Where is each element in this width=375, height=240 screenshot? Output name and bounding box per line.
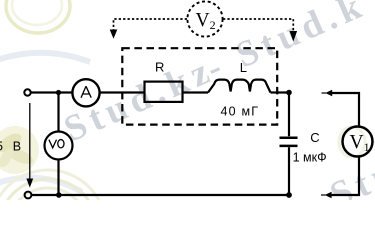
svg-text:L: L [240, 60, 247, 75]
svg-text:40 мГ: 40 мГ [221, 105, 260, 119]
svg-text:5: 5 [0, 139, 3, 153]
svg-text:C: C [310, 130, 319, 145]
svg-text:R: R [155, 60, 164, 75]
svg-text:В: В [13, 139, 21, 153]
svg-text:1 мкФ: 1 мкФ [293, 150, 327, 164]
